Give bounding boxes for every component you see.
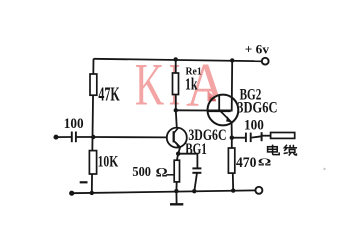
- speck: [323, 168, 325, 170]
- wire left branch vertical: [92, 59, 94, 193]
- wire output node to cap: [232, 137, 245, 139]
- wire bottom ground rail: [72, 190, 256, 193]
- svg-text:100: 100: [244, 118, 264, 134]
- transistor Q2 emitter arrow: [226, 116, 232, 122]
- wire 500 pot to rail: [175, 182, 177, 191]
- wire bypass cap to rail: [194, 173, 197, 191]
- ground left terminal: [69, 191, 74, 196]
- svg-text:47K: 47K: [98, 82, 119, 105]
- svg-text:100: 100: [64, 117, 84, 133]
- svg-text:+ 6v: + 6v: [245, 43, 270, 56]
- node rail bypass cap: [192, 189, 196, 193]
- wire emitter node to bypass cap: [178, 154, 197, 168]
- wire output cap to tick: [252, 136, 262, 137]
- node BG1 base: [91, 135, 95, 139]
- wire Re1 branch from top rail to BG2 base node: [175, 59, 177, 110]
- capacitor 100 input plates: [72, 132, 76, 143]
- node BG2 base / BG1 collector: [174, 108, 178, 112]
- transistor Q1 collector diagonal: [174, 128, 179, 133]
- wire 500 omega foot to pot: [167, 174, 174, 176]
- svg-text:10K: 10K: [98, 153, 119, 170]
- wire BG1 emitter to node: [174, 141, 180, 154]
- transistor Q2 inner vertical: [218, 95, 220, 111]
- wire 470 to rail: [232, 173, 234, 191]
- terminal +6v circle: [262, 58, 269, 65]
- resistor Re1: [173, 73, 179, 95]
- BG2 interior mask: [209, 96, 238, 125]
- node top rail Re1 junction: [174, 57, 178, 61]
- svg-text:500: 500: [132, 165, 151, 179]
- watermark A leg wedge light: [208, 91, 216, 102]
- ground stub: [175, 191, 177, 204]
- wire top supply rail: [94, 59, 262, 61]
- node rail 470: [231, 188, 235, 192]
- label cable lan character: [284, 145, 297, 156]
- wire BG2 collector from top rail: [231, 60, 234, 111]
- transistor Q1 BG1 circle: [167, 128, 187, 148]
- transistor Q1 emitter arrow: [176, 142, 180, 147]
- terminal output circle: [255, 187, 262, 194]
- wire base of BG1: [93, 136, 167, 138]
- svg-text:K: K: [135, 52, 164, 119]
- resistor 10K: [89, 151, 96, 174]
- wire input cap to base node: [76, 136, 93, 138]
- svg-text:1k: 1k: [185, 75, 198, 94]
- resistor 500 ohm: [174, 160, 179, 182]
- wire emitter node to 500 pot: [177, 154, 178, 161]
- transistor Q2 BG2 circle: [208, 95, 239, 126]
- svg-text:3DG6C: 3DG6C: [237, 99, 277, 117]
- svg-text:BG1: BG1: [185, 140, 207, 157]
- resistor 470 ohm: [228, 148, 234, 173]
- node top rail BG2 collector junction: [230, 58, 234, 62]
- wire output node to 470: [231, 138, 233, 148]
- wire input lead: [56, 136, 71, 138]
- wire BG1 collector: [176, 110, 177, 128]
- transistor Q2 base bar: [208, 110, 231, 113]
- transistor Q1 base bar: [173, 131, 175, 142]
- ground bar: [170, 203, 183, 205]
- svg-text:Ω: Ω: [258, 158, 272, 169]
- output tick: [261, 132, 263, 141]
- capacitor 100 output plates: [246, 133, 251, 143]
- node rail left branch: [90, 191, 94, 195]
- svg-text:470: 470: [236, 156, 256, 171]
- resistor 47K: [90, 74, 97, 95]
- wire tick to cable: [262, 135, 271, 137]
- wire BG2 emitter to output node: [231, 122, 233, 138]
- input terminal: [54, 135, 59, 140]
- node BG2 emitter output: [230, 136, 234, 140]
- transistor Q2 emitter diagonal: [221, 112, 232, 123]
- node BG1 emitter: [176, 152, 180, 156]
- label cable dian character: [268, 145, 280, 155]
- svg-text:Ω: Ω: [156, 165, 168, 179]
- cable symbol rectangle: [271, 133, 295, 139]
- capacitor bypass plates: [192, 168, 201, 172]
- wire BG2 base: [176, 109, 208, 111]
- watermark A leg wedge dark: [210, 97, 216, 102]
- label minus sign: [80, 181, 88, 183]
- node rail 500: [174, 189, 178, 193]
